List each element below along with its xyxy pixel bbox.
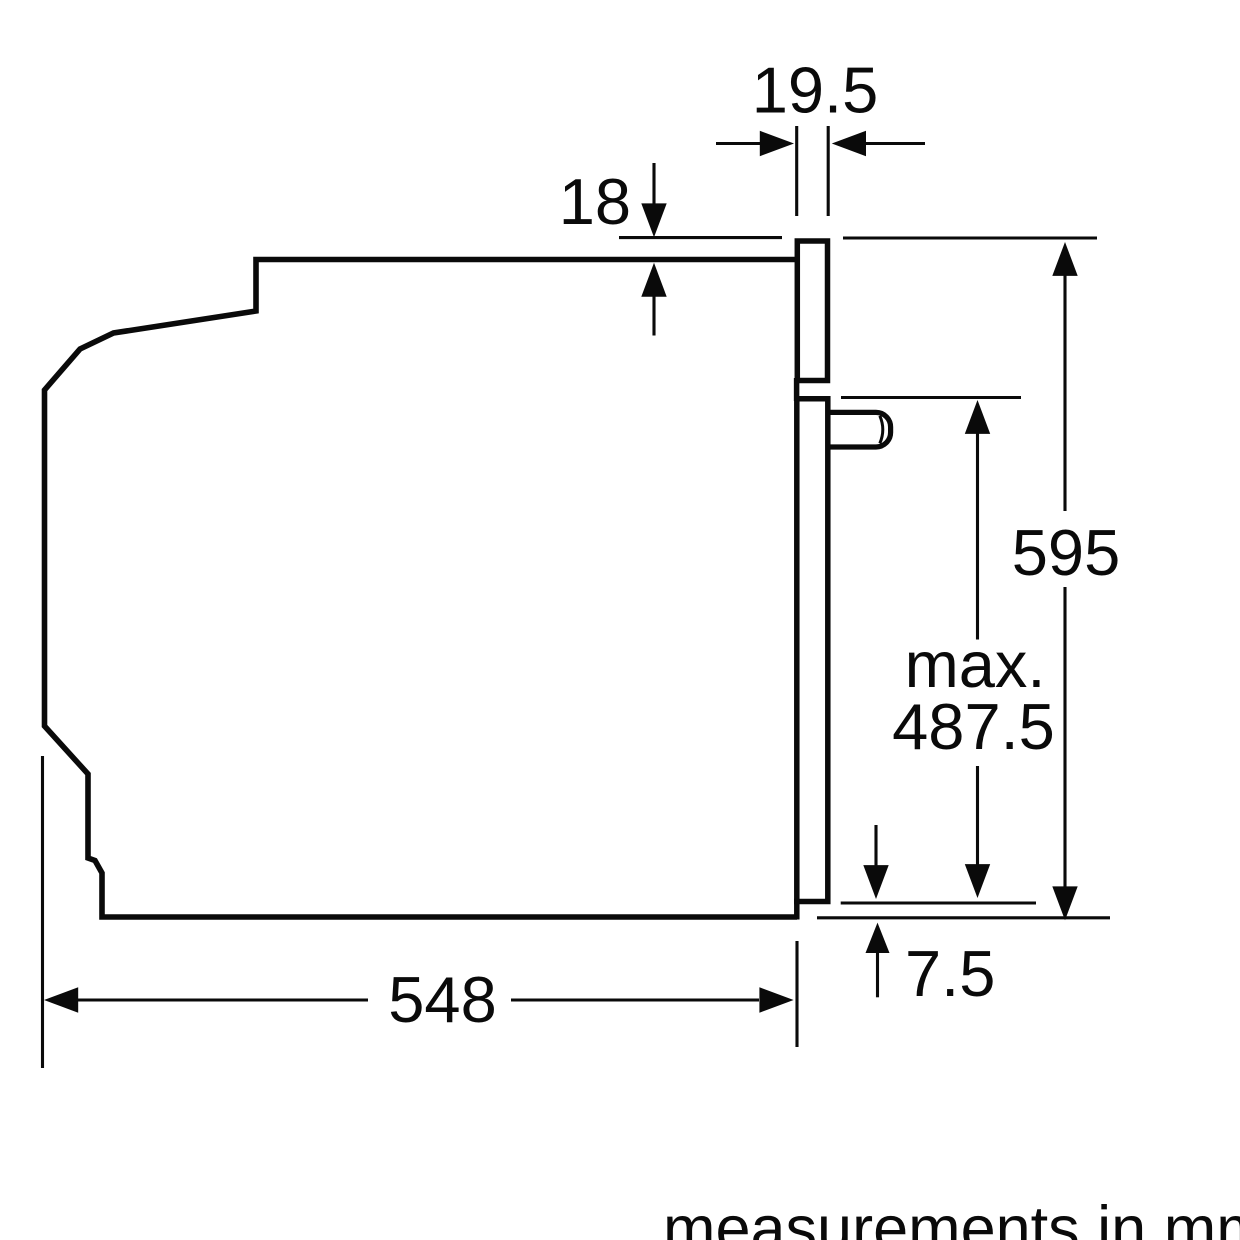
- dim 548 line right segment: [511, 998, 759, 1001]
- dim 19.5 left arrow shaft: [716, 142, 761, 145]
- svg-text:19.5: 19.5: [752, 54, 879, 127]
- arrowhead 548 right: [759, 987, 793, 1012]
- arrowhead 595 up: [1052, 242, 1077, 276]
- oven carcass outline: [45, 260, 798, 918]
- dim 548 line left segment: [77, 998, 368, 1001]
- arrowhead 19.5 right: [832, 131, 866, 156]
- dim 19.5 extension line left: [795, 126, 798, 216]
- dim 19.5 extension line right: [827, 126, 830, 216]
- dim 7.5 lower arrow shaft: [876, 952, 879, 997]
- svg-text:595: 595: [1012, 516, 1120, 589]
- dim 18 lower arrow shaft: [652, 296, 655, 336]
- svg-text:7.5: 7.5: [905, 937, 995, 1010]
- svg-text:18: 18: [559, 165, 631, 238]
- svg-text:548: 548: [388, 963, 496, 1036]
- svg-text:487.5: 487.5: [892, 690, 1055, 763]
- carcass bottom reference line: [817, 916, 1110, 919]
- door handle: [828, 412, 891, 447]
- arrowhead 18 up: [641, 263, 666, 297]
- arrowhead 548 left: [44, 987, 78, 1012]
- arrowhead 487.5 up: [965, 400, 990, 434]
- dim 595 arrow shaft upper: [1063, 275, 1066, 887]
- arrowhead 19.5 left: [760, 131, 794, 156]
- dim max487.5 arrow shaft: [976, 433, 979, 865]
- arrowhead 7.5 up: [866, 923, 890, 953]
- oven door: [794, 399, 828, 920]
- dim 19.5 right arrow shaft: [866, 142, 925, 145]
- dim 548 left extension line: [41, 756, 44, 1068]
- arrowhead 18 down: [641, 203, 666, 237]
- dim 548 right extension line: [795, 941, 798, 1047]
- door bottom reference line: [841, 901, 1036, 904]
- dim 18 reference line left of fascia: [619, 236, 782, 239]
- fascia-door connector: [794, 378, 800, 401]
- control fascia: [797, 241, 827, 381]
- arrowhead 7.5 down: [863, 865, 888, 899]
- arrowhead 595 down: [1052, 886, 1077, 920]
- arrowhead 487.5 down: [965, 864, 990, 898]
- svg-text:measurements in mm: measurements in mm: [663, 1194, 1240, 1240]
- handle end cap line: [880, 416, 883, 444]
- dim 18 upper arrow shaft: [652, 163, 655, 205]
- dim 595 top reference line: [843, 236, 1097, 239]
- dim 7.5 upper arrow shaft: [874, 825, 877, 866]
- dim max487.5 top reference line: [841, 396, 1021, 399]
